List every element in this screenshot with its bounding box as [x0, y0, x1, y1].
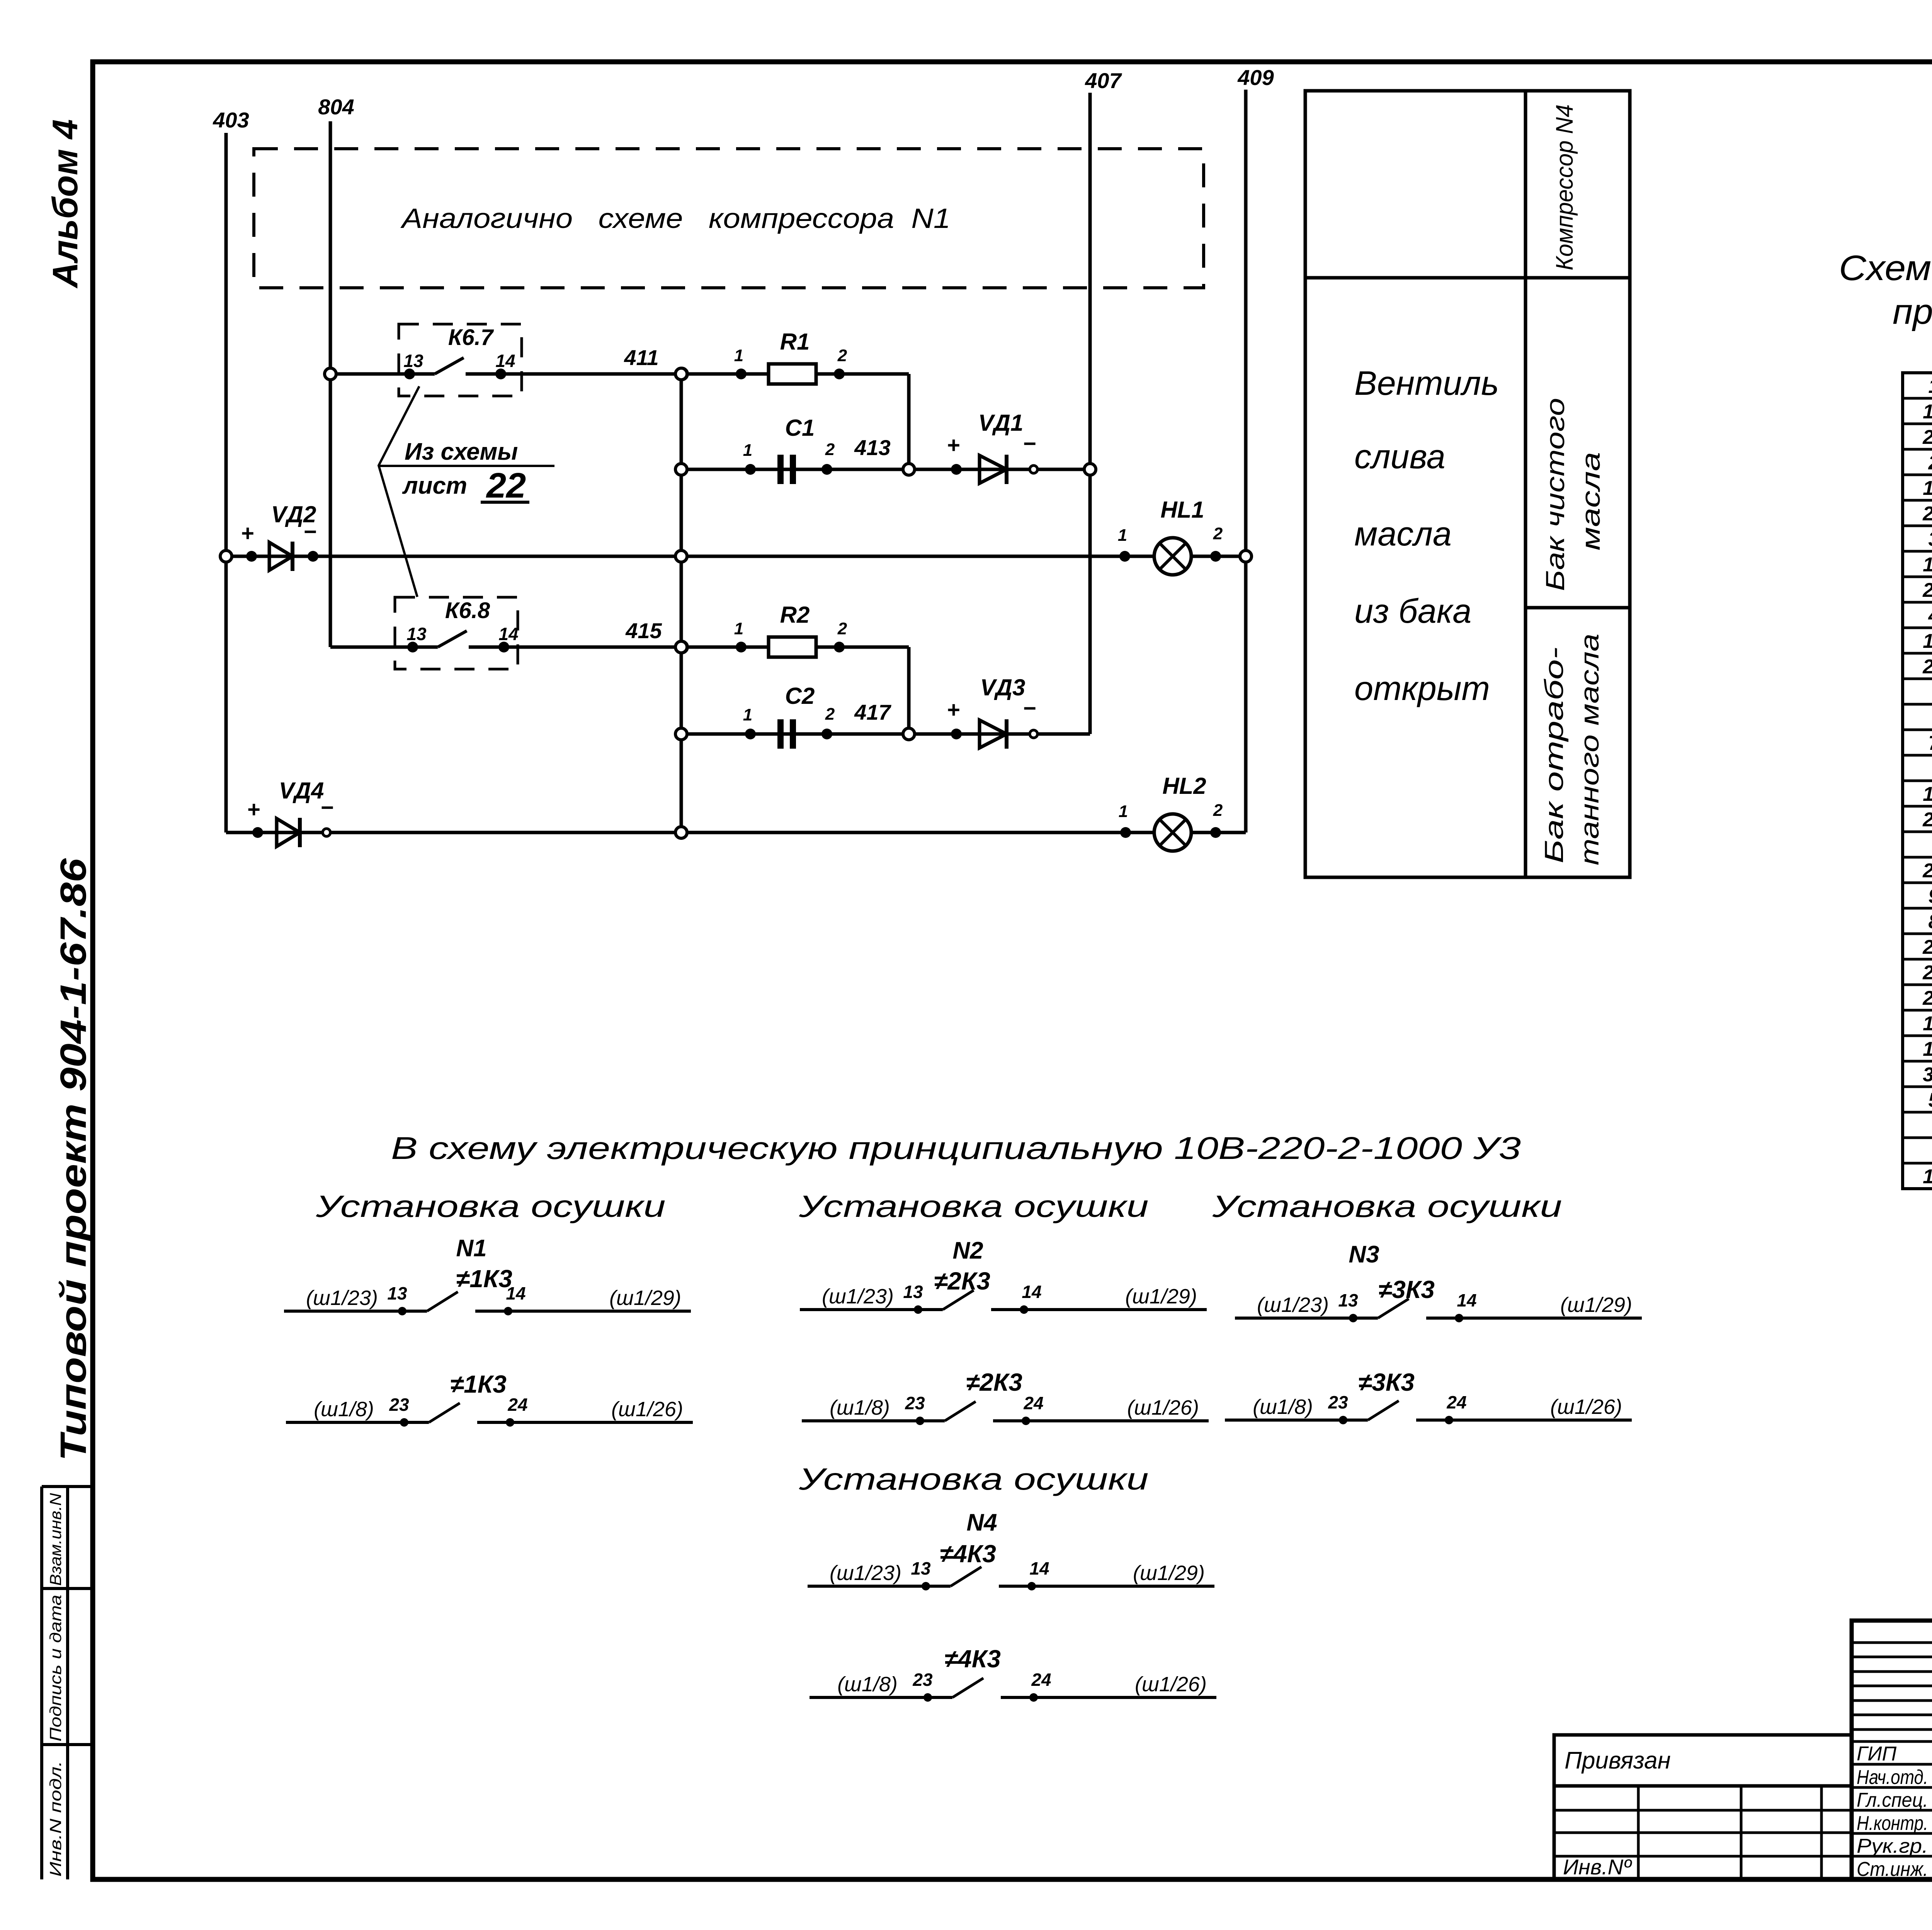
svg-text:из бака: из бака — [1354, 592, 1471, 630]
contact 2К3 23-24 — [802, 1419, 945, 1422]
svg-text:Привязан: Привязан — [1565, 1747, 1671, 1774]
svg-text:9: 9 — [1929, 885, 1932, 907]
contact K6.8 arm — [438, 631, 467, 647]
svg-text:1: 1 — [734, 346, 743, 365]
svg-text:27: 27 — [1922, 860, 1932, 882]
svg-text:24: 24 — [507, 1395, 527, 1415]
contact 2К3 13-14 — [800, 1308, 943, 1311]
stamp label Инв.N подл. — [46, 1761, 65, 1877]
node bus row C junction — [675, 550, 687, 562]
table horizontal divider right column — [1526, 606, 1630, 610]
svg-text:13: 13 — [903, 1282, 923, 1302]
svg-text:Инв.Nº: Инв.Nº — [1563, 1855, 1632, 1879]
svg-text:≠4К3: ≠4К3 — [940, 1540, 996, 1568]
wire 804 corner to K6.8 — [330, 646, 438, 649]
svg-text:Бак отрабо-: Бак отрабо- — [1539, 647, 1569, 863]
node on 804 at row A — [325, 368, 336, 380]
svg-text:(ш1/23): (ш1/23) — [822, 1285, 894, 1308]
svg-text:14: 14 — [495, 351, 515, 371]
svg-text:Подпись и дата: Подпись и дата — [46, 1595, 65, 1741]
svg-text:413: 413 — [854, 435, 890, 460]
svg-text:2: 2 — [825, 705, 835, 724]
svg-text:N3: N3 — [1349, 1241, 1379, 1268]
svg-text:19: 19 — [1923, 1013, 1932, 1035]
wire R1 pin2 corner down to row B — [907, 374, 911, 469]
svg-text:1: 1 — [743, 705, 752, 724]
svg-text:417: 417 — [854, 700, 891, 724]
svg-text:масла: масла — [1576, 452, 1605, 550]
node bus row D junction — [675, 641, 687, 653]
wire 804 (vertical) — [329, 121, 332, 647]
svg-text:−: − — [1023, 696, 1036, 721]
svg-text:14: 14 — [1029, 1558, 1049, 1578]
svg-text:2: 2 — [837, 619, 847, 638]
svg-text:N4: N4 — [966, 1509, 997, 1536]
svg-text:1: 1 — [743, 441, 752, 460]
svg-text:К6.8: К6.8 — [445, 598, 490, 623]
svg-text:2: 2 — [1213, 524, 1223, 543]
svg-text:Взам.инв.N: Взам.инв.N — [46, 1493, 65, 1586]
svg-text:−: − — [321, 795, 334, 820]
contact 3К3 13-14 — [1235, 1317, 1378, 1320]
svg-text:+: + — [247, 797, 260, 822]
contact 1К3 13-14 — [284, 1310, 427, 1313]
svg-text:+: + — [947, 433, 960, 458]
svg-text:12: 12 — [1923, 401, 1932, 423]
svg-text:16: 16 — [1923, 1165, 1932, 1188]
contact 4К3 13-14 — [808, 1585, 951, 1588]
svg-text:Вентиль: Вентиль — [1354, 364, 1499, 402]
svg-text:(ш1/26): (ш1/26) — [1550, 1395, 1622, 1419]
rotated text Бак отработанного масла — [1539, 647, 1569, 863]
svg-text:23: 23 — [905, 1393, 925, 1413]
node bus row F junction — [675, 827, 687, 838]
dashed box Аналогично схеме компрессора N1 — [254, 149, 1204, 288]
svg-text:Из схемы: Из схемы — [405, 438, 518, 465]
table vertical divider — [1524, 91, 1527, 877]
svg-text:масла: масла — [1354, 515, 1452, 553]
svg-text:Нач.отд.: Нач.отд. — [1857, 1766, 1928, 1789]
contact 4К3 23-24 — [810, 1696, 952, 1699]
svg-text:HL2: HL2 — [1162, 773, 1206, 799]
stamp column table — [40, 1487, 43, 1879]
wire row E bus to 407 — [682, 732, 1090, 736]
svg-text:2: 2 — [1928, 452, 1932, 474]
svg-text:Типовой проект 904-1-67.86: Типовой проект 904-1-67.86 — [53, 858, 94, 1461]
svg-text:2: 2 — [837, 346, 847, 365]
relay contact K6.8 dashed box — [395, 597, 518, 669]
svg-text:(ш1/8): (ш1/8) — [314, 1398, 374, 1421]
svg-text:403: 403 — [213, 108, 249, 132]
svg-text:(ш1/29): (ш1/29) — [1560, 1293, 1632, 1317]
node bus at row F — [675, 827, 687, 838]
svg-text:(ш1/23): (ш1/23) — [830, 1561, 901, 1585]
svg-text:Аналогично схеме компрессо: Аналогично схеме компрессора N1 — [400, 203, 951, 234]
relay contact K6.7 dashed box — [399, 324, 522, 396]
svg-text:прибора ≠ 1п.3б: прибора ≠ 1п.3б — [1893, 292, 1932, 331]
svg-text:17: 17 — [1923, 783, 1932, 805]
svg-text:(ш1/8): (ш1/8) — [830, 1396, 890, 1419]
svg-text:14: 14 — [498, 624, 518, 644]
svg-text:24: 24 — [1922, 656, 1932, 678]
node bus at row C — [675, 550, 687, 562]
привязан table — [1554, 1735, 1852, 1879]
svg-text:VД1: VД1 — [978, 410, 1024, 436]
svg-text:411: 411 — [624, 345, 658, 370]
svg-text:открыт: открыт — [1354, 669, 1490, 707]
svg-text:1: 1 — [734, 619, 743, 638]
svg-text:слива: слива — [1354, 437, 1446, 476]
svg-text:−: − — [1023, 431, 1036, 456]
svg-text:1: 1 — [1929, 375, 1932, 398]
svg-text:13: 13 — [406, 624, 427, 644]
svg-text:≠2К3: ≠2К3 — [934, 1267, 990, 1295]
svg-text:24: 24 — [1031, 1670, 1051, 1690]
svg-text:407: 407 — [1085, 68, 1122, 93]
svg-text:(ш1/29): (ш1/29) — [609, 1286, 681, 1310]
svg-text:(ш1/29): (ш1/29) — [1125, 1285, 1197, 1308]
svg-text:(ш1/23): (ш1/23) — [1257, 1293, 1329, 1317]
svg-text:К6.7: К6.7 — [448, 325, 494, 350]
svg-text:22: 22 — [486, 466, 526, 505]
svg-text:Установка осушки: Установка осушки — [798, 1462, 1148, 1496]
svg-text:13: 13 — [403, 351, 423, 371]
personnel rows — [1852, 1763, 1932, 1766]
rotated text Бак чистого масла — [1541, 398, 1570, 591]
node VD1-407 junction — [1084, 464, 1096, 475]
svg-text:3: 3 — [1929, 528, 1932, 550]
stamp label Взам.инв.N — [46, 1493, 65, 1586]
svg-text:+: + — [947, 697, 960, 722]
svg-text:(ш1/26): (ш1/26) — [1135, 1673, 1207, 1696]
svg-text:N2: N2 — [952, 1237, 983, 1264]
rotated text Компрессор N4 — [1551, 104, 1578, 270]
contact 1К3 23-24 — [286, 1421, 429, 1424]
table Вентиль слива масла — [1305, 91, 1630, 877]
svg-text:23: 23 — [1328, 1392, 1348, 1412]
svg-text:2: 2 — [825, 440, 835, 459]
svg-text:Установка осушки: Установка осушки — [315, 1189, 665, 1223]
svg-text:23: 23 — [1922, 579, 1932, 601]
margin label Типовой проект 904-1-67.86 — [53, 858, 94, 1461]
svg-text:Бак чистого: Бак чистого — [1541, 398, 1570, 591]
svg-text:23: 23 — [389, 1395, 409, 1415]
svg-text:415: 415 — [625, 618, 662, 643]
stamp label Подпись и дата — [46, 1595, 65, 1741]
svg-text:≠4К3: ≠4К3 — [944, 1645, 1001, 1673]
contact K6.7 pin 13 — [404, 369, 415, 379]
svg-text:20: 20 — [1922, 987, 1932, 1009]
svg-text:Рук.гр.: Рук.гр. — [1857, 1835, 1928, 1857]
svg-text:(ш1/23): (ш1/23) — [306, 1286, 378, 1310]
svg-text:10: 10 — [1923, 1038, 1932, 1060]
svg-text:N1: N1 — [456, 1235, 486, 1262]
svg-text:804: 804 — [318, 95, 354, 119]
svg-text:C2: C2 — [785, 683, 815, 709]
svg-text:R2: R2 — [780, 602, 810, 628]
svg-text:28: 28 — [1922, 962, 1932, 984]
svg-text:14: 14 — [1923, 554, 1932, 576]
node HL1-409 junction — [1240, 550, 1252, 562]
leader lines from note to K6.7 and K6.8 — [379, 386, 419, 597]
svg-text:≠1К3: ≠1К3 — [450, 1370, 507, 1398]
svg-text:1: 1 — [1118, 526, 1127, 545]
contact K6.7 arm — [435, 358, 464, 374]
svg-text:(ш1/26): (ш1/26) — [1127, 1396, 1199, 1419]
svg-text:13: 13 — [1923, 477, 1932, 499]
svg-text:14: 14 — [1022, 1282, 1041, 1302]
svg-text:15: 15 — [1923, 630, 1932, 652]
svg-text:В схему электрическую при: В схему электрическую принципиальную 10В… — [391, 1131, 1521, 1166]
svg-text:Ст.инж.: Ст.инж. — [1857, 1858, 1928, 1881]
svg-text:4: 4 — [1928, 605, 1932, 627]
svg-text:ГИП: ГИП — [1857, 1743, 1896, 1765]
wire 407 (vertical) — [1088, 93, 1092, 734]
svg-text:Инв.N подл.: Инв.N подл. — [46, 1761, 65, 1877]
svg-text:22: 22 — [1922, 503, 1932, 525]
svg-text:24: 24 — [1023, 1393, 1043, 1413]
wire row D to R2 — [682, 646, 909, 649]
wire row F from 403 to 409 — [226, 831, 1246, 834]
svg-text:14: 14 — [506, 1283, 526, 1303]
svg-text:Альбом 4: Альбом 4 — [46, 119, 85, 289]
margin label Альбом 4 — [46, 119, 85, 289]
svg-text:−: − — [304, 519, 317, 544]
svg-text:C1: C1 — [785, 415, 815, 441]
svg-text:Гл.спец.: Гл.спец. — [1857, 1789, 1928, 1811]
svg-text:Схема подключения: Схема подключения — [1839, 248, 1932, 288]
wire 403 (vertical) — [224, 133, 228, 832]
node 413 junction — [903, 464, 915, 475]
svg-text:≠3К3: ≠3К3 — [1358, 1368, 1415, 1396]
svg-text:(ш1/26): (ш1/26) — [611, 1398, 683, 1421]
svg-text:13: 13 — [911, 1558, 931, 1578]
svg-text:26: 26 — [1922, 809, 1932, 831]
wire R2 pin2 corner down to row E — [907, 647, 911, 734]
contact 3К3 23-24 — [1225, 1419, 1368, 1422]
svg-text:Установка осушки: Установка осушки — [1212, 1189, 1562, 1223]
svg-text:≠2К3: ≠2К3 — [966, 1368, 1022, 1396]
svg-text:5: 5 — [1929, 1089, 1932, 1111]
svg-text:23: 23 — [912, 1670, 933, 1690]
node bus row B — [675, 464, 687, 475]
vertical bus wire — [680, 374, 683, 832]
svg-text:≠1К3: ≠1К3 — [456, 1265, 512, 1293]
svg-text:14: 14 — [1457, 1290, 1476, 1310]
svg-text:+: + — [241, 521, 254, 546]
svg-text:лист: лист — [402, 472, 467, 499]
svg-text:VД4: VД4 — [279, 778, 324, 804]
svg-text:29: 29 — [1922, 936, 1932, 958]
svg-text:(ш1/8): (ш1/8) — [837, 1673, 898, 1696]
terminal strip outline — [1903, 373, 1932, 1189]
svg-text:(ш1/8): (ш1/8) — [1253, 1395, 1313, 1419]
revision table rows — [1852, 1641, 1932, 1644]
svg-text:2: 2 — [1213, 801, 1223, 820]
contact K6.8 pin 13 — [407, 642, 418, 652]
node 415 junction — [676, 641, 687, 653]
svg-text:HL1: HL1 — [1160, 497, 1204, 523]
svg-text:8: 8 — [1929, 911, 1932, 933]
svg-text:24: 24 — [1446, 1392, 1466, 1412]
wire row A 411 to R1 — [682, 372, 909, 376]
node bus row E — [675, 728, 687, 740]
svg-text:7: 7 — [1929, 732, 1932, 754]
wire row B bus to 407 — [682, 468, 1090, 471]
svg-text:21: 21 — [1922, 426, 1932, 449]
svg-text:Установка осушки: Установка осушки — [798, 1189, 1148, 1223]
table horizontal divider top — [1305, 276, 1630, 280]
wire row C from 403 to 409 — [226, 555, 1246, 558]
title block outline — [1852, 1621, 1932, 1879]
contact K6.7 pin 14 — [466, 372, 682, 376]
wire row A from 804 to K6.7 contact — [330, 372, 435, 376]
svg-text:(ш1/29): (ш1/29) — [1133, 1561, 1205, 1585]
svg-text:30: 30 — [1923, 1064, 1932, 1086]
svg-text:409: 409 — [1237, 65, 1274, 90]
svg-text:Н.контр.: Н.контр. — [1857, 1812, 1928, 1835]
node 417 junction — [903, 728, 915, 740]
svg-text:танного масла: танного масла — [1575, 634, 1604, 865]
contact K6.8 pin 14 — [469, 646, 682, 649]
wire 409 (vertical) — [1244, 90, 1248, 832]
node on 403 at row C — [220, 550, 232, 562]
svg-text:VД3: VД3 — [980, 674, 1026, 700]
svg-text:13: 13 — [387, 1283, 407, 1303]
node bus row A — [675, 368, 687, 380]
svg-text:1: 1 — [1119, 802, 1128, 821]
svg-text:R1: R1 — [780, 329, 810, 355]
svg-text:Компрессор N4: Компрессор N4 — [1551, 104, 1578, 270]
svg-text:13: 13 — [1338, 1290, 1358, 1310]
